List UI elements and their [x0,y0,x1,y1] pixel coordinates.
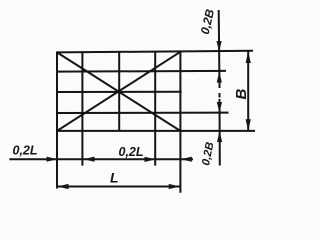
arrow left at L line left end [57,184,68,189]
diagonal top-left to bottom-right [57,52,180,130]
arrow up at bottom edge (0,2B lower) [217,131,222,142]
svg-text:L: L [110,169,119,185]
svg-text:0,2В: 0,2В [200,141,216,166]
arrow down at top edge (0,2B upper) [217,41,222,52]
svg-text:0,2В: 0,2В [198,8,217,36]
bottom dimension line 0,2L chain [9,158,193,160]
dimension line L [57,186,180,188]
inner vertical line at 0.2L from left [81,52,83,165]
plate top edge with right extension [57,51,254,53]
arrow down at 0.8B line (0,2B lower) [217,102,222,113]
arrow down at bottom edge (B line) [246,119,251,131]
inner horizontal line at 0.2B from bottom, extended right [57,112,229,114]
inner vertical centre line [118,52,120,131]
arrow right at L line right end [169,184,180,189]
svg-text:0,2L: 0,2L [13,143,38,157]
plate bottom edge with right extension [57,130,256,132]
plate right edge with bottom extension [179,51,181,193]
vertical dimension line dash between [219,93,221,98]
arrow right at left plate edge (0,2L left) [47,157,58,162]
diagonal bottom-left to top-right [57,52,180,131]
inner horizontal centre line [57,91,182,93]
svg-text:В: В [233,89,250,100]
arrow left at 0.2L line (0,2L left) [84,157,95,162]
plate left edge with bottom extension [56,52,58,189]
arrow up at 0.2B top line (0,2B upper) [217,72,222,83]
inner vertical line at 0.2L from right [154,52,156,166]
arrow right at 0.8L line (0,2L middle) [145,157,156,162]
vertical dimension line 0,2B lower [219,99,221,166]
arrow up at top edge (B line) [246,52,251,64]
vertical dimension line B [247,51,249,131]
svg-text:0,2L: 0,2L [119,145,144,159]
arrow left at right plate edge (0,2L middle) [181,157,192,162]
vertical dimension line 0,2B upper [218,10,221,88]
inner horizontal line at 0.2B from top, extended right [57,70,226,73]
